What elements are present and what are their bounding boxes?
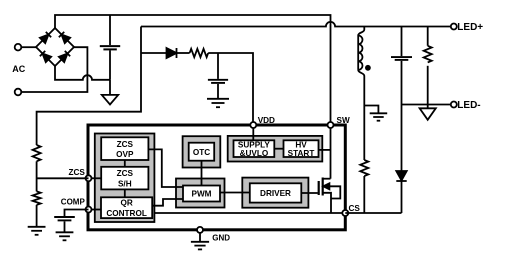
wire (OTC to PWM)	[201, 161, 203, 186]
wire (PWM to DRIVER)	[220, 192, 250, 194]
wire (SUPPLY to HV)	[274, 148, 283, 150]
wire (COMP compensation)	[65, 210, 89, 217]
svg-text:VDD: VDD	[258, 116, 275, 125]
capacitor C1	[100, 15, 120, 80]
svg-text:GND: GND	[212, 233, 230, 242]
resistor R1	[190, 49, 209, 57]
block DRIVER	[250, 183, 301, 202]
pin CS	[342, 210, 348, 216]
ground (transformer return)	[364, 106, 387, 121]
PWM container	[176, 179, 225, 208]
block ZCS S/H	[101, 167, 148, 190]
capacitor C2	[208, 53, 228, 98]
wire	[401, 181, 403, 213]
ground (GND pin symbol)	[191, 232, 209, 249]
wire (S/H to QR)	[124, 189, 126, 197]
capacitor C3 (COMP)	[54, 217, 75, 232]
bridge rectifier BR1	[36, 28, 74, 66]
transistor Q1 (internal MOSFET)	[301, 128, 340, 213]
svg-text:ZCS: ZCS	[69, 168, 86, 177]
block SUPPLY &UVLO	[234, 140, 275, 157]
diode D1	[167, 48, 177, 58]
svg-text:ZCS: ZCS	[117, 140, 134, 149]
wire (LED+ rail with hop over SW wire)	[141, 22, 451, 27]
svg-text:ZCS: ZCS	[117, 169, 134, 178]
node ZCS divider junction / wire to ZCS pin	[37, 177, 89, 179]
svg-text:CONTROL: CONTROL	[106, 209, 146, 218]
wire (OVP to PWM input)	[148, 149, 183, 187]
resistor R3 (ZCS divider lower)	[33, 191, 41, 205]
svg-text:CS: CS	[349, 204, 361, 213]
wire (VDD to SUPPLY)	[252, 128, 254, 140]
ground	[56, 232, 74, 240]
terminal LED+	[451, 24, 457, 30]
wire (DC bus to VDD diode and ZCS divider)	[37, 27, 141, 146]
capacitor C4 (output)	[391, 27, 412, 105]
OTC container	[183, 136, 221, 167]
ground (earth triangle)	[102, 80, 118, 105]
terminal LED-	[451, 102, 457, 108]
svg-text:SW: SW	[337, 116, 350, 125]
wire	[401, 105, 403, 171]
pin ZCS	[86, 175, 92, 181]
wire (QR to PWM input)	[152, 199, 183, 206]
wire (OVP to S/H)	[124, 160, 126, 167]
block OTC	[189, 143, 215, 161]
ground	[207, 99, 229, 107]
pin SW	[328, 122, 334, 128]
wire	[21, 46, 36, 48]
block PWM	[183, 186, 220, 202]
wire (VIN rail from bridge to SW)	[55, 15, 331, 122]
SUPPLY/HV container	[228, 136, 323, 162]
wire (CS rail)	[345, 212, 401, 214]
wire	[36, 205, 38, 226]
wire	[141, 52, 167, 54]
svg-text:LED-: LED-	[457, 100, 480, 111]
wire (LED- rail)	[402, 104, 451, 106]
resistor R2 (ZCS divider upper)	[33, 145, 41, 161]
resistor R4 (current sense)	[360, 160, 368, 176]
wire	[363, 176, 365, 213]
wire	[36, 161, 38, 191]
wire (COMP pin into QR)	[89, 209, 102, 211]
block ZCS OVP	[101, 137, 148, 160]
block QR CONTROL	[101, 197, 152, 218]
svg-text:DRIVER: DRIVER	[260, 189, 291, 198]
pin VDD	[250, 122, 256, 128]
wire (HV START to SW line)	[319, 149, 331, 151]
AC terminal bottom	[15, 89, 22, 96]
IC U1 outline	[88, 125, 345, 230]
svg-text:PWM: PWM	[191, 190, 211, 199]
ground (earth triangle at LED-)	[420, 105, 436, 120]
wire	[21, 47, 87, 92]
svg-text:START: START	[288, 149, 315, 158]
wire (ZCS pin into S/H)	[89, 177, 102, 179]
svg-text:COMP: COMP	[61, 198, 86, 207]
DRIVER container	[242, 178, 308, 208]
ZCS block group container	[95, 134, 155, 223]
diode D2 (freewheeling)	[396, 171, 406, 181]
resistor R5 (LED parallel)	[424, 27, 432, 105]
wire	[177, 52, 190, 54]
wire (current sense line to CS)	[154, 212, 342, 214]
svg-text:&UVLO: &UVLO	[240, 149, 269, 158]
svg-text:QR: QR	[120, 199, 132, 208]
ground	[28, 227, 46, 235]
pin COMP	[86, 207, 92, 213]
svg-text:OTC: OTC	[193, 148, 210, 157]
block HV START	[284, 140, 319, 157]
wire (bridge minus rail with crossover hop)	[55, 66, 110, 80]
pin GND	[197, 227, 203, 233]
inductor L1 (transformer primary)	[358, 27, 371, 161]
svg-text:LED+: LED+	[457, 22, 483, 33]
wire (to VDD pin)	[208, 53, 253, 122]
AC terminal top	[15, 44, 22, 51]
svg-text:AC: AC	[12, 64, 25, 74]
svg-text:S/H: S/H	[118, 179, 132, 188]
svg-text:OVP: OVP	[116, 150, 134, 159]
